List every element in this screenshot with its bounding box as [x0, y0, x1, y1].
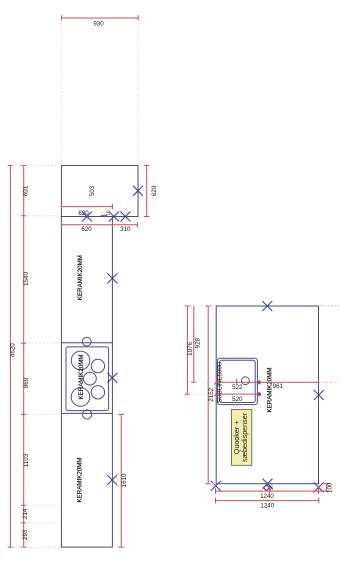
svg-text:961: 961 [273, 383, 284, 390]
dotted extension line at y=382.3 [196, 381, 216, 383]
svg-text:sæbedispenser: sæbedispenser [240, 412, 249, 462]
edge mark X strip right edge section 2 [107, 373, 117, 383]
dotted extension line at y=505.2 [25, 504, 60, 506]
dimension 2152 (panel full height) [205, 306, 214, 484]
burner circle top-right [91, 359, 104, 372]
svg-text:620: 620 [78, 210, 89, 217]
projection dotted line right from 930 dim down to worktop corner [137, 20, 139, 166]
dimension 1610 (right of strip lower part) [118, 414, 128, 547]
dotted extension line at y=394.2 [189, 393, 216, 395]
projection dotted line left from 930 dim down to worktop corner [60, 20, 62, 166]
svg-text:620: 620 [81, 226, 92, 233]
edge mark X on strip top edge under 620 label [82, 212, 92, 222]
sink outer rectangle SUBLINE500U [217, 358, 257, 404]
svg-text:620: 620 [151, 185, 158, 196]
sink inner rectangle [220, 360, 256, 402]
edge mark X strip right edge section 1 [107, 273, 117, 283]
svg-text:KERAMIK20MM: KERAMIK20MM [77, 255, 84, 300]
svg-text:930: 930 [93, 20, 104, 27]
edge mark X at panel bottom-left corner [211, 481, 221, 491]
seam connector circle lower [83, 410, 92, 419]
svg-text:310: 310 [120, 226, 131, 233]
dimension 4620 (overall height, outer left) [8, 166, 17, 548]
inner left dimension chain line [21, 166, 30, 216]
svg-text:928: 928 [195, 337, 202, 348]
svg-text:KERAMIK20MM: KERAMIK20MM [77, 457, 84, 502]
dimension 928 (panel left, to upper feature line) [191, 306, 202, 382]
dimension 620 (inside upper piece, strip width) [61, 204, 112, 217]
svg-text:601: 601 [23, 185, 30, 196]
dotted extension line at panel bottom y=483.7 [210, 483, 216, 485]
svg-text:KERAMIK20MM: KERAMIK20MM [78, 354, 85, 399]
joint diamond below bottom-center X [264, 485, 270, 491]
right worktop panel 1240x2152 [216, 306, 318, 484]
edge mark X on panel right edge [314, 390, 324, 400]
edge mark X strip right edge section 3 [107, 475, 117, 485]
dimension 1540 [21, 216, 30, 343]
svg-text:1240: 1240 [260, 503, 274, 510]
svg-text:1076: 1076 [187, 342, 194, 356]
long vertical worktop strip 620 wide [61, 217, 112, 548]
svg-text:1103: 1103 [23, 453, 30, 467]
svg-text:503: 503 [89, 185, 96, 196]
edge mark X on upper piece bottom edge (right) [120, 212, 130, 222]
svg-text:100: 100 [327, 482, 334, 493]
burner circle bottom-left [71, 388, 90, 407]
dimension 293 [21, 523, 29, 547]
svg-text:293: 293 [22, 529, 29, 540]
dimension 930 (top width of upper worktop piece) [61, 15, 138, 27]
svg-text:869: 869 [23, 377, 30, 388]
dotted extension line at y=522.9 [25, 522, 60, 524]
bottom dimension 1240 (first) [216, 486, 319, 500]
dotted red extension of 961 beyond panel edge [319, 381, 339, 383]
dimension 100 (bottom right vertical) [319, 482, 334, 493]
edge mark X at panel bottom-center [263, 479, 273, 489]
edge mark X on right edge of upper piece [133, 186, 143, 196]
feature line 522 / 961 (tap centre line) [214, 379, 318, 391]
dimension 1076 (panel left, to lower feature line) [185, 306, 194, 394]
svg-text:1540: 1540 [23, 272, 30, 286]
small 10 offset dimension arrow [101, 210, 111, 217]
seam joint line upper [61, 342, 112, 344]
bottom dimension 1240 (second) [216, 498, 319, 510]
dotted extension line at panel top y=306 [187, 305, 216, 307]
dotted extension line at y=547.1 [12, 546, 61, 548]
svg-text:56: 56 [268, 485, 273, 490]
dimension 601 [21, 166, 26, 216]
yellow note box Quooker + saebedispenser [232, 410, 252, 466]
dimension 620 (right side height of upper piece) [144, 166, 158, 217]
edge mark X on upper piece bottom edge (left) [109, 212, 119, 222]
dimension 214 [21, 505, 29, 523]
svg-text:1240: 1240 [260, 493, 274, 500]
dotted extension line at y=165.5 [12, 164, 61, 166]
seam connector circle upper [82, 337, 91, 346]
svg-text:520: 520 [232, 396, 243, 403]
edge mark X on panel top edge [262, 301, 272, 311]
svg-text:4620: 4620 [10, 343, 17, 357]
feature line 520 (sink centre line) [214, 392, 261, 403]
svg-text:214: 214 [22, 508, 29, 519]
svg-text:1610: 1610 [121, 473, 128, 487]
edge mark X at panel bottom-right corner [314, 482, 324, 492]
lower dimension line 620 / 310 [61, 222, 137, 233]
dimension 1103 [21, 414, 30, 505]
tap hole circle [242, 377, 250, 385]
seam joint line lower [61, 412, 112, 414]
dotted extension line at y=414.4 [25, 414, 60, 416]
svg-text:522: 522 [232, 384, 243, 391]
dotted extension line at y=215.8 [25, 215, 60, 217]
burner circle middle [84, 372, 97, 385]
burner circle top-left [71, 351, 90, 370]
dotted extension line at y=343 [25, 342, 60, 344]
dotted red extension line from panel top-right corner [320, 305, 340, 307]
burner circle bottom-right [91, 386, 104, 399]
dimension 869 [21, 343, 30, 414]
hob cutout rectangle [66, 347, 109, 411]
upper worktop piece 930x620 [61, 166, 138, 217]
svg-text:10: 10 [105, 210, 110, 215]
